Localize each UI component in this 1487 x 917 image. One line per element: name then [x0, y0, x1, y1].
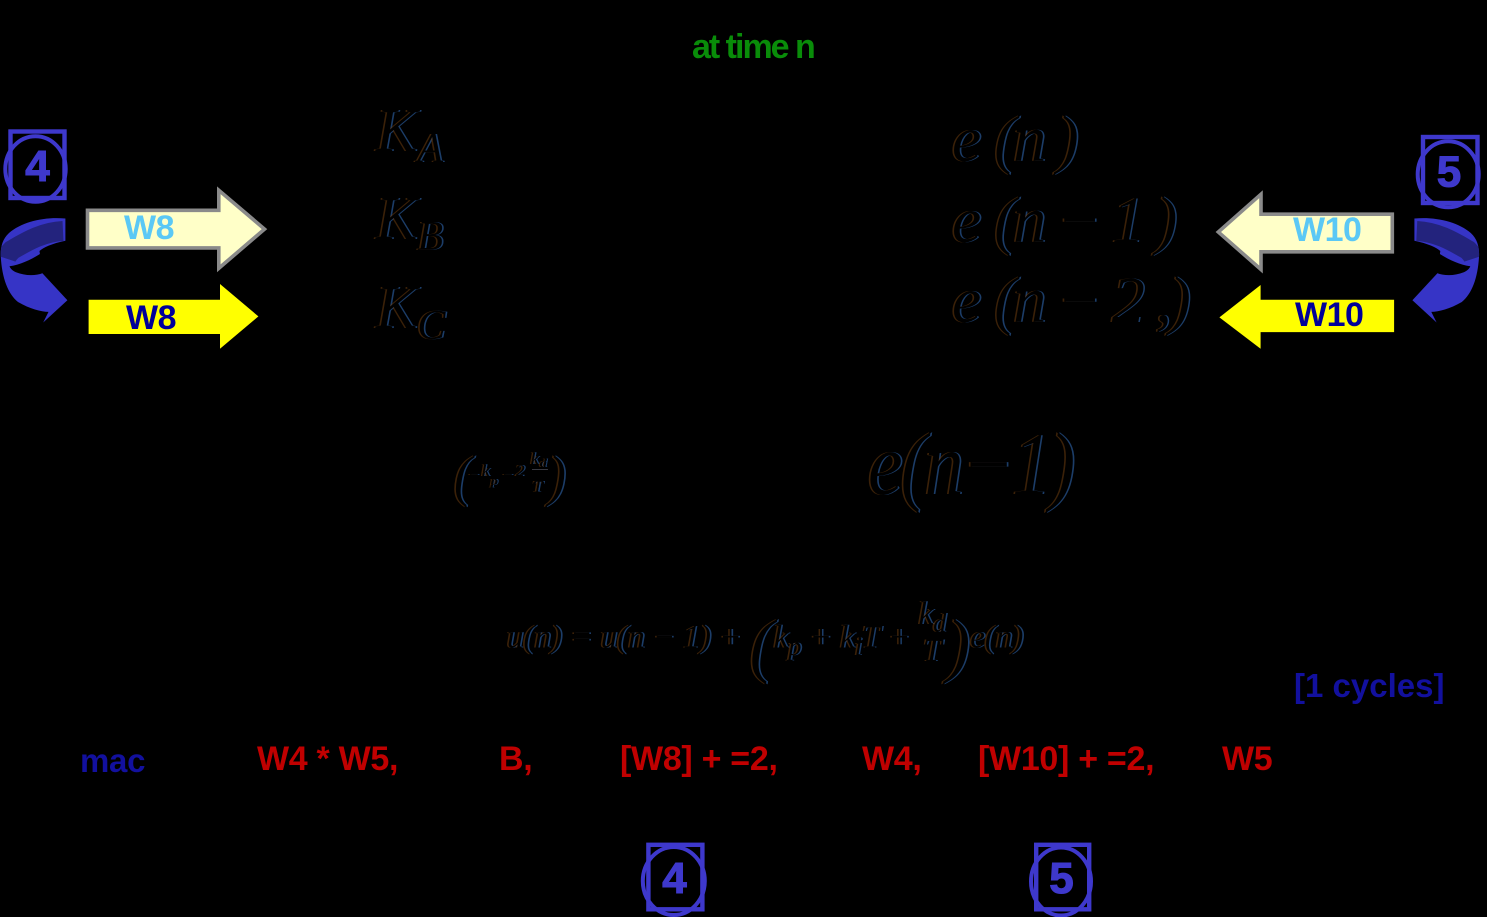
right yellow arrow W10: [1219, 285, 1394, 349]
ghost math e(n-1): [952, 188, 1174, 254]
left pale yellow arrow W8: [88, 190, 265, 268]
badge 4 top-left: ellipse: [5, 136, 65, 202]
operand [W8] + =2,: [620, 742, 778, 776]
right pale yellow arrow W10: [1218, 194, 1392, 269]
badge 4 bottom: ellipse: [643, 847, 705, 915]
badge 5 bottom: square: [1036, 845, 1089, 910]
W10 label on pale arrow: [1293, 213, 1361, 247]
ghost math K_A: [376, 100, 443, 170]
W10 label on yellow arrow: [1295, 298, 1363, 332]
operand [W10] + =2,: [978, 742, 1154, 776]
ghost small formula (-kp - 2 kd/T): [0, 0, 1, 204]
left curved arrow inner shade: [6, 231, 63, 259]
operand B,: [499, 742, 532, 776]
right curved arrow (mirrored): [1412, 218, 1479, 322]
title: at time n: [692, 30, 814, 64]
operand W4,: [862, 742, 922, 776]
badge 4 bottom: square: [648, 845, 702, 910]
operand W5: [1222, 742, 1272, 776]
svg-text:5: 5: [1437, 148, 1461, 197]
badge 4 top-left: square: [11, 132, 65, 199]
badge 5 bottom: ellipse: [1031, 848, 1091, 916]
ghost math K_B: [376, 188, 443, 258]
badge 5 top-right: ellipse: [1418, 141, 1479, 207]
right curved arrow body: [1412, 218, 1479, 322]
badge 5 top-right: square: [1423, 137, 1478, 203]
ghost main formula u(n)=u(n-1)+(kp+kiT+kd/T)e(n): [507, 566, 1023, 681]
ghost math K_C: [376, 277, 445, 347]
ghost math e(n-2): [952, 268, 1188, 334]
right curved arrow inner shade: [1417, 231, 1474, 259]
left curved arrow hole: [10, 252, 44, 275]
instruction row: mac: [80, 744, 145, 777]
[1 cycles] label: [1294, 669, 1444, 702]
svg-text:5: 5: [1049, 854, 1073, 903]
ghost math e(n): [952, 107, 1076, 173]
W8 label on yellow arrow: [126, 301, 176, 335]
left curved arrow body: [1, 218, 68, 322]
svg-text:4: 4: [662, 854, 687, 903]
svg-text:4: 4: [25, 142, 50, 191]
operand W4 * W5,: [257, 742, 398, 776]
ghost big e(n-1): [868, 420, 1073, 509]
left yellow arrow W8: [89, 284, 259, 349]
right curved arrow hole: [1437, 252, 1471, 275]
W8 label on pale arrow: [124, 211, 174, 245]
